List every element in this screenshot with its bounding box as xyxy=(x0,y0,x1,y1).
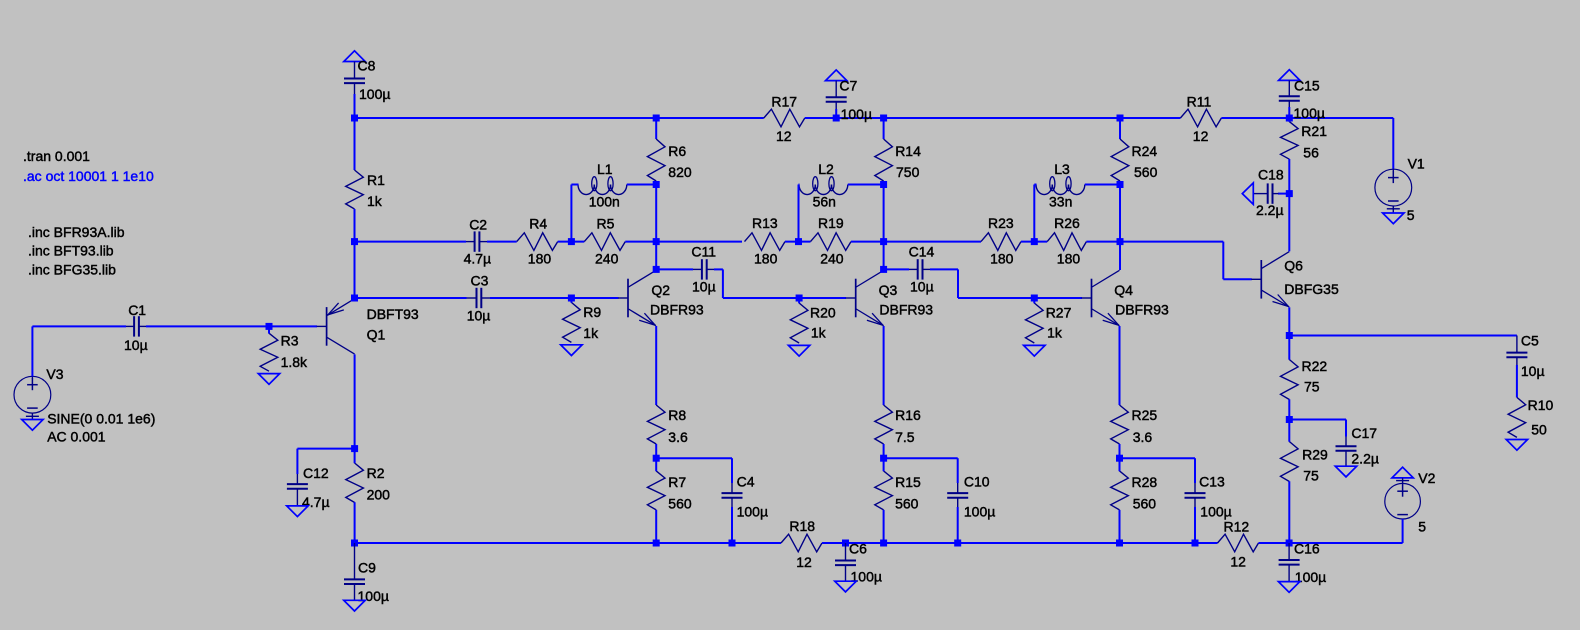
svg-text:DBFR93: DBFR93 xyxy=(1115,301,1169,317)
svg-text:4.7µ: 4.7µ xyxy=(464,251,492,267)
junction R27 node xyxy=(1031,295,1038,302)
wire node to C17 xyxy=(1289,420,1346,437)
svg-text:10µ: 10µ xyxy=(692,278,716,294)
svg-text:C3: C3 xyxy=(471,273,489,289)
resistor R14 xyxy=(875,139,893,181)
svg-text:R29: R29 xyxy=(1302,446,1328,462)
svg-text:.tran 0.001: .tran 0.001 xyxy=(23,148,90,164)
wire C10 to bottom rail xyxy=(957,507,959,543)
junction C18 node xyxy=(1286,190,1293,197)
capacitor C14 xyxy=(917,259,919,279)
svg-text:560: 560 xyxy=(668,496,692,512)
resistor R28 xyxy=(1111,471,1129,510)
transistor Q2 xyxy=(618,297,628,299)
svg-text:R24: R24 xyxy=(1132,143,1158,159)
ground flag C9 xyxy=(344,600,365,611)
svg-text:1k: 1k xyxy=(811,324,827,340)
wire top rail to V1 xyxy=(1392,118,1394,169)
wire C11 to Q3 base xyxy=(714,269,846,298)
resistor R16 xyxy=(875,405,893,444)
svg-text:1k: 1k xyxy=(583,325,599,341)
resistor R12 xyxy=(1218,534,1259,552)
svg-text:100n: 100n xyxy=(589,193,620,209)
wire bottom rail middle xyxy=(822,542,1218,544)
junction R25/R28/C13 node xyxy=(1116,455,1123,462)
wire C13 to bottom rail xyxy=(1194,507,1196,543)
svg-text:DBFG35: DBFG35 xyxy=(1284,281,1339,297)
junction Q2 collector / C11 xyxy=(653,266,660,273)
svg-text:180: 180 xyxy=(754,250,778,266)
svg-text:R15: R15 xyxy=(895,474,921,490)
wire R29 to bottom rail xyxy=(1288,481,1290,543)
svg-text:DBFR93: DBFR93 xyxy=(879,301,933,317)
capacitor C11 xyxy=(701,259,703,279)
capacitor C6 xyxy=(835,560,856,562)
inductor L1 xyxy=(578,185,594,195)
svg-text:1.8k: 1.8k xyxy=(281,354,308,370)
wire node to C12 xyxy=(297,449,354,474)
resistor R8 xyxy=(647,405,665,444)
wire node to R15 xyxy=(883,458,885,471)
junction R8/R7/C4 node xyxy=(653,455,660,462)
wire R13 to R19 xyxy=(785,241,811,243)
svg-text:10µ: 10µ xyxy=(910,278,934,294)
wire Q3 emitter to R16 xyxy=(883,326,885,405)
svg-text:2.2µ: 2.2µ xyxy=(1256,202,1284,218)
svg-text:R20: R20 xyxy=(810,304,836,320)
wire R21 to rail xyxy=(1288,118,1290,122)
capacitor C5 xyxy=(1506,352,1527,354)
capacitor C12 xyxy=(287,483,308,485)
wire R27 stub xyxy=(1033,298,1035,303)
voltage source V2 xyxy=(1385,483,1421,519)
wire R25 to node xyxy=(1119,444,1121,458)
voltage source V3 xyxy=(14,376,51,413)
wire node to R2 xyxy=(354,449,356,464)
junction bottom rail at C4 xyxy=(729,540,736,547)
svg-text:.inc BFT93.lib: .inc BFT93.lib xyxy=(28,243,114,259)
capacitor C18 xyxy=(1267,183,1269,203)
svg-text:.inc BFR93A.lib: .inc BFR93A.lib xyxy=(28,224,125,240)
svg-text:C18: C18 xyxy=(1258,167,1284,183)
svg-text:R10: R10 xyxy=(1528,397,1554,413)
svg-text:75: 75 xyxy=(1303,468,1319,484)
resistor R23 xyxy=(981,233,1021,251)
junction output node xyxy=(1286,332,1293,339)
voltage source V1 xyxy=(1375,169,1412,206)
capacitor C3 xyxy=(476,288,478,308)
svg-text:5: 5 xyxy=(1407,207,1415,223)
svg-text:C10: C10 xyxy=(964,474,990,490)
ground flag R10 xyxy=(1506,440,1527,451)
svg-text:R3: R3 xyxy=(281,332,299,348)
wire output to R22 xyxy=(1288,336,1290,360)
junction top rail at R6 xyxy=(653,115,660,122)
wire C3 to Q2 base xyxy=(490,297,619,299)
power flag C18 (left) xyxy=(1242,183,1253,204)
svg-text:C1: C1 xyxy=(128,302,146,318)
svg-text:180: 180 xyxy=(528,250,552,266)
svg-text:C15: C15 xyxy=(1294,78,1320,94)
svg-text:100µ: 100µ xyxy=(358,588,389,604)
svg-text:56: 56 xyxy=(1303,145,1319,161)
power flag V2 xyxy=(1392,467,1413,478)
junction top rail at R14 xyxy=(880,115,887,122)
capacitor C8 xyxy=(344,78,365,80)
power flag C15 xyxy=(1279,70,1300,81)
svg-text:DBFR93: DBFR93 xyxy=(650,301,704,317)
junction mid rail at R14 column xyxy=(880,238,887,245)
svg-text:R25: R25 xyxy=(1132,407,1158,423)
junction bottom rail at R15 xyxy=(880,540,887,547)
svg-text:10µ: 10µ xyxy=(124,337,148,353)
svg-text:12: 12 xyxy=(776,128,792,144)
resistor R11 xyxy=(1180,109,1221,127)
svg-text:1k: 1k xyxy=(367,193,383,209)
wire Q4 emitter to R25 xyxy=(1119,326,1121,405)
junction R24/L3 xyxy=(1117,181,1124,188)
svg-text:R11: R11 xyxy=(1187,94,1212,110)
wire R14 to Q3 collector xyxy=(883,181,885,270)
svg-text:R5: R5 xyxy=(597,215,615,231)
svg-text:3.6: 3.6 xyxy=(668,429,688,445)
wire R6 to Q2 collector xyxy=(655,181,657,270)
wire Q1 collector down xyxy=(354,354,356,448)
capacitor C16 xyxy=(1279,559,1300,561)
svg-text:C4: C4 xyxy=(737,474,755,490)
svg-text:33n: 33n xyxy=(1049,193,1072,209)
wire node to C4 xyxy=(656,458,732,483)
resistor R27 xyxy=(1026,303,1044,343)
svg-text:56n: 56n xyxy=(813,193,836,209)
junction R14/L2 xyxy=(880,181,887,188)
wire R24 to Q4 collector xyxy=(1119,181,1121,270)
wire C18 to node xyxy=(1278,193,1289,195)
svg-text:100µ: 100µ xyxy=(841,106,872,122)
svg-text:.ac oct 10001 1 1e10: .ac oct 10001 1 1e10 xyxy=(23,168,154,184)
wire R20 stub xyxy=(798,298,800,303)
wire rail to R24 xyxy=(1119,118,1121,139)
capacitor C17 xyxy=(1336,445,1357,447)
svg-text:R19: R19 xyxy=(818,215,844,231)
wire Q6 emitter down xyxy=(1288,307,1290,335)
wire node to C10 xyxy=(884,458,958,483)
capacitor C15 xyxy=(1279,95,1300,97)
svg-text:C16: C16 xyxy=(1294,541,1320,557)
svg-text:200: 200 xyxy=(367,487,391,503)
svg-text:R7: R7 xyxy=(668,474,686,490)
resistor R10 xyxy=(1508,397,1526,437)
svg-text:560: 560 xyxy=(1134,164,1158,180)
capacitor C7 xyxy=(826,96,847,98)
wire R2 to bottom rail xyxy=(354,502,356,543)
junction top rail at C7 xyxy=(833,115,840,122)
svg-text:Q4: Q4 xyxy=(1114,282,1133,298)
svg-text:100µ: 100µ xyxy=(737,503,768,519)
wire node to R29 xyxy=(1288,420,1290,442)
svg-text:75: 75 xyxy=(1304,379,1320,395)
capacitor C2 xyxy=(474,231,476,251)
ground flag V3 xyxy=(22,420,43,431)
svg-text:560: 560 xyxy=(895,496,919,512)
wire V3 to C1 xyxy=(32,326,126,376)
svg-text:560: 560 xyxy=(1133,496,1157,512)
wire R16 to node xyxy=(883,444,885,458)
wire C7 to rail xyxy=(835,109,837,118)
svg-text:SINE(0 0.01 1e6): SINE(0 0.01 1e6) xyxy=(47,411,155,427)
svg-text:R23: R23 xyxy=(988,215,1014,231)
transistor Q4 xyxy=(1082,297,1092,299)
wire L2 left leg xyxy=(799,185,800,242)
wire R9 stub xyxy=(570,298,572,303)
resistor R22 xyxy=(1281,360,1299,400)
wire R8 to node xyxy=(655,444,657,458)
svg-text:R8: R8 xyxy=(668,407,686,423)
wire top rail left xyxy=(355,117,764,119)
svg-text:1k: 1k xyxy=(1047,324,1063,340)
junction bottom rail at R28 xyxy=(1116,540,1123,547)
svg-text:Q2: Q2 xyxy=(651,282,670,298)
inductor L2 xyxy=(799,185,815,195)
resistor R21 xyxy=(1281,122,1299,160)
transistor Q1 xyxy=(317,325,327,327)
resistor R17 xyxy=(764,109,805,127)
svg-text:R2: R2 xyxy=(367,465,385,481)
wire C5 to R10 xyxy=(1516,365,1518,397)
svg-text:C5: C5 xyxy=(1521,333,1539,349)
wire bottom rail left xyxy=(355,542,782,544)
junction bottom rail at C13 xyxy=(1192,540,1199,547)
junction R22/R29/C17 node xyxy=(1286,416,1293,423)
svg-text:10µ: 10µ xyxy=(467,308,491,324)
svg-text:R18: R18 xyxy=(789,518,815,534)
svg-text:C9: C9 xyxy=(358,560,376,576)
svg-text:R13: R13 xyxy=(752,215,778,231)
wire top rail right xyxy=(1221,117,1393,119)
junction top rail at C8/R1 xyxy=(351,115,358,122)
wire C4 to bottom rail xyxy=(731,507,733,543)
wire R3 stub xyxy=(268,326,270,333)
wire R15 to bottom rail xyxy=(883,510,885,543)
svg-text:R26: R26 xyxy=(1054,215,1080,231)
svg-text:L3: L3 xyxy=(1054,161,1070,177)
inductor L3 xyxy=(1036,185,1052,195)
wire output to C5 xyxy=(1289,335,1517,337)
wire R21 to C18 node xyxy=(1288,159,1290,194)
resistor R25 xyxy=(1111,405,1129,444)
svg-text:R12: R12 xyxy=(1224,518,1250,534)
resistor R7 xyxy=(647,471,665,510)
svg-text:50: 50 xyxy=(1531,421,1547,437)
resistor R26 xyxy=(1047,233,1086,251)
svg-text:820: 820 xyxy=(668,164,692,180)
ground flag V1 xyxy=(1383,213,1404,224)
wire node to R28 xyxy=(1119,458,1121,471)
svg-text:R28: R28 xyxy=(1132,474,1158,490)
svg-text:R6: R6 xyxy=(668,143,686,159)
junction top rail at C15 xyxy=(1286,115,1293,122)
svg-text:L2: L2 xyxy=(818,161,834,177)
svg-text:100µ: 100µ xyxy=(1294,105,1325,121)
wire node to C13 xyxy=(1120,458,1196,483)
resistor R5 xyxy=(584,233,625,251)
wire C15 to rail xyxy=(1288,107,1290,118)
wire Q3 collector to C14 xyxy=(884,268,909,270)
svg-text:2.2µ: 2.2µ xyxy=(1351,450,1379,466)
resistor R15 xyxy=(875,471,893,510)
wire R28 to bottom rail xyxy=(1119,510,1121,543)
wire R1 to mid rail xyxy=(354,209,356,242)
wire L3 right xyxy=(1085,184,1120,186)
wire mid rail to C2 xyxy=(355,241,467,243)
svg-text:R14: R14 xyxy=(895,143,921,159)
junction top rail at R24 xyxy=(1117,115,1124,122)
junction R20 node xyxy=(796,295,803,302)
resistor R2 xyxy=(346,463,364,503)
wire Q1 emitter to C3 xyxy=(355,297,467,299)
junction bottom rail at C16/R29 xyxy=(1286,540,1293,547)
junction bottom rail at C10 xyxy=(954,540,961,547)
wire L1 right xyxy=(627,184,656,186)
svg-text:R4: R4 xyxy=(529,215,547,231)
wire R5 to node xyxy=(625,241,742,243)
svg-text:C14: C14 xyxy=(909,244,935,260)
svg-text:DBFT93: DBFT93 xyxy=(367,306,419,322)
resistor R19 xyxy=(811,233,852,251)
wire node to R7 xyxy=(655,458,657,471)
svg-text:Q6: Q6 xyxy=(1284,258,1303,274)
wire L3 left leg xyxy=(1034,185,1036,242)
wire C2 to R4 xyxy=(487,241,517,243)
wire C1 to Q1 base xyxy=(146,325,317,327)
svg-text:C7: C7 xyxy=(839,78,857,94)
transistor Q3 xyxy=(846,297,856,299)
svg-text:V3: V3 xyxy=(46,366,63,382)
ground flag C6 xyxy=(835,581,856,592)
svg-text:R22: R22 xyxy=(1302,358,1328,374)
wire rail to R14 xyxy=(883,118,885,139)
resistor R24 xyxy=(1111,139,1129,181)
wire R22 to node xyxy=(1288,399,1290,419)
junction mid rail at R1 xyxy=(351,238,358,245)
svg-text:10µ: 10µ xyxy=(1521,363,1545,379)
resistor R4 xyxy=(517,233,558,251)
svg-text:100µ: 100µ xyxy=(964,503,995,519)
resistor R18 xyxy=(781,534,822,552)
svg-text:C2: C2 xyxy=(469,216,487,232)
svg-text:C6: C6 xyxy=(849,541,867,557)
transistor Q6 xyxy=(1251,278,1261,280)
ground flag R27 xyxy=(1024,345,1045,356)
capacitor C13 xyxy=(1185,492,1206,494)
ground flag R3 xyxy=(258,374,279,385)
svg-text:5: 5 xyxy=(1418,518,1426,534)
junction bottom rail at C6 xyxy=(842,540,849,547)
svg-text:7.5: 7.5 xyxy=(895,429,915,445)
resistor R6 xyxy=(647,139,665,181)
svg-text:100µ: 100µ xyxy=(1200,503,1231,519)
svg-text:R1: R1 xyxy=(367,172,385,188)
junction R16/R15/C10 node xyxy=(880,455,887,462)
wire top rail middle xyxy=(805,117,1181,119)
wire C8 to top rail xyxy=(354,94,356,118)
svg-text:R27: R27 xyxy=(1046,304,1072,320)
svg-text:100µ: 100µ xyxy=(359,86,390,102)
wire Q2 emitter to R8 xyxy=(655,326,657,405)
svg-text:V1: V1 xyxy=(1408,156,1425,172)
capacitor C10 xyxy=(947,492,968,494)
ground flag C12 xyxy=(287,506,308,517)
junction R3 node xyxy=(266,323,273,330)
wire R4 to node xyxy=(558,241,585,243)
svg-text:V2: V2 xyxy=(1418,470,1435,486)
svg-text:L1: L1 xyxy=(597,161,613,177)
wire R19 to R23 xyxy=(851,241,981,243)
junction mid rail at L1 tap xyxy=(568,238,575,245)
wire R26 to Q6 base xyxy=(1086,242,1251,280)
junction bottom rail at R7 xyxy=(653,540,660,547)
resistor R20 xyxy=(790,303,808,343)
capacitor C1 xyxy=(133,316,135,336)
svg-text:240: 240 xyxy=(820,250,844,266)
wire L1 left leg xyxy=(571,185,578,242)
resistor R29 xyxy=(1281,442,1299,482)
svg-text:12: 12 xyxy=(1193,128,1209,144)
svg-text:C13: C13 xyxy=(1199,474,1225,490)
svg-text:C17: C17 xyxy=(1351,425,1377,441)
capacitor C9 xyxy=(344,578,365,580)
junction mid rail at L2 tap xyxy=(795,238,802,245)
svg-text:R16: R16 xyxy=(895,407,921,423)
junction R2/C12 node xyxy=(351,445,358,452)
ground flag C16 xyxy=(1278,582,1299,593)
svg-text:AC 0.001: AC 0.001 xyxy=(47,429,106,445)
wire V2 to bottom rail xyxy=(1402,519,1404,543)
wire C14 to Q4 base xyxy=(930,269,1082,298)
junction mid rail at R24 column xyxy=(1117,238,1124,245)
svg-text:240: 240 xyxy=(595,250,619,266)
svg-text:C8: C8 xyxy=(358,58,376,74)
ground flag R20 xyxy=(788,345,809,356)
svg-text:C12: C12 xyxy=(303,465,329,481)
junction Q1 emitter node xyxy=(351,295,358,302)
wire R23 to R26 xyxy=(1021,241,1047,243)
ground flag R9 xyxy=(561,345,582,356)
resistor R1 xyxy=(346,170,364,209)
svg-text:12: 12 xyxy=(796,554,812,570)
svg-text:.inc BFG35.lib: .inc BFG35.lib xyxy=(28,262,116,278)
svg-text:750: 750 xyxy=(896,164,920,180)
svg-text:C11: C11 xyxy=(691,244,716,260)
power flag C7 xyxy=(826,70,847,81)
svg-text:R17: R17 xyxy=(771,94,797,110)
resistor R3 xyxy=(260,333,278,371)
junction R6/L1 xyxy=(653,181,660,188)
wire Q6 collector up xyxy=(1288,194,1290,252)
junction Q3 collector / C14 xyxy=(880,266,887,273)
junction mid rail at L3 tap xyxy=(1031,238,1038,245)
svg-text:12: 12 xyxy=(1230,554,1246,570)
wire R7 to bottom rail xyxy=(655,510,657,543)
svg-text:Q3: Q3 xyxy=(879,282,898,298)
wire Q2 collector to C11 xyxy=(656,268,693,270)
junction mid rail at R6 column xyxy=(653,238,660,245)
wire rail to R1 xyxy=(354,118,356,170)
resistor R13 xyxy=(745,233,786,251)
svg-text:180: 180 xyxy=(1057,250,1081,266)
capacitor C4 xyxy=(722,492,743,494)
wire bottom rail right xyxy=(1259,542,1403,544)
